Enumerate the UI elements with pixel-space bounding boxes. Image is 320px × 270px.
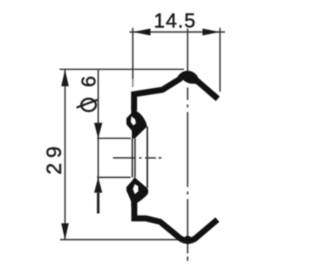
- hole edge line left inner: [134, 138, 136, 177]
- centerline horizontal dash 2: [145, 157, 156, 159]
- leader tail below arrow (thick): [97, 193, 100, 214]
- centerline vertical segment 4: [187, 199, 189, 254]
- hump apex thickening: [181, 72, 200, 85]
- dimension line 29 (left): [64, 70, 66, 240]
- centerline horizontal dash 1 (axis): [113, 157, 136, 159]
- profile upper jaw: lip, hump, right end: [134, 74, 218, 110]
- extension line left of 14.5 faint lower part: [132, 79, 134, 87]
- arrow left of 14.5: [133, 29, 150, 36]
- centerline vertical dot 3: [187, 257, 189, 262]
- label phi symbol (rotated): [81, 99, 96, 111]
- arrow top of 29: [61, 70, 69, 87]
- centerline horizontal dot 1: [139, 157, 142, 159]
- svg-text:6: 6: [78, 76, 100, 87]
- svg-text:14.5: 14.5: [154, 10, 197, 32]
- centerline vertical dot 2: [187, 192, 189, 195]
- arrow up of phi6: [94, 177, 102, 193]
- svg-text:29: 29: [43, 141, 66, 174]
- arrow right of 14.5: [203, 29, 220, 36]
- extension line top of 29: [60, 68, 185, 70]
- profile lower jaw: wall, elbow, bottom lip, valley, right end: [134, 202, 217, 241]
- centerline vertical segment 1 (axis): [187, 29, 189, 72]
- extension line phi6 bottom: [97, 176, 131, 178]
- dimension line 14.5 (top): [130, 31, 226, 33]
- extension line right of 14.5: [219, 28, 221, 92]
- centerline vertical segment 3: [187, 112, 189, 187]
- hole edge line right: [146, 127, 148, 189]
- centerline vertical dot 1: [187, 105, 189, 108]
- profile upper kink block (chevron + bulge + wedge above hole): [126, 107, 147, 139]
- leader line phi6 (vertical): [97, 70, 99, 192]
- valley bottom thickening: [184, 236, 192, 244]
- profile lower kink block (wedge below hole + bulge + chevron): [126, 177, 148, 206]
- hole edge line left outer: [131, 138, 133, 177]
- extension line phi6 top: [97, 137, 131, 139]
- extension line left of 14.5: [132, 28, 134, 79]
- centerline horizontal dot 2: [159, 157, 162, 159]
- extension line bottom of 29: [60, 239, 179, 241]
- arrow down of phi6: [94, 123, 102, 139]
- centerline vertical segment 2: [187, 88, 189, 101]
- arrow bottom of 29: [61, 223, 69, 240]
